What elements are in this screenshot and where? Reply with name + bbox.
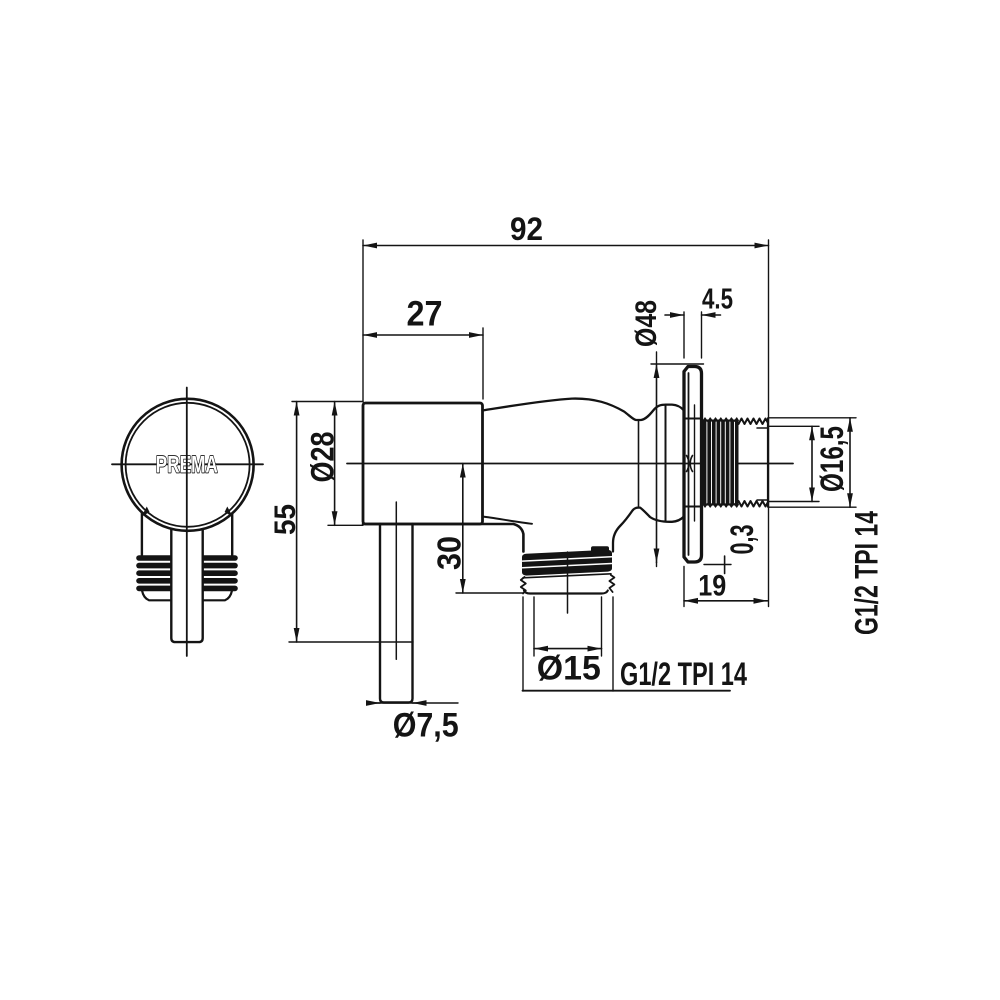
drain stem right view [380, 524, 413, 703]
dim O28 line [334, 402, 336, 526]
dim O16,5 line [811, 426, 813, 501]
dim 19 line [684, 600, 768, 602]
thread band 4 left view [139, 578, 235, 584]
dim 27 line [363, 334, 483, 336]
thread band 5 left view [139, 586, 235, 592]
dim O15 line [534, 648, 602, 650]
neck waist edge line [638, 421, 640, 508]
outlet thread band slit 2 [523, 564, 612, 568]
dim G1/2 bottom extension right [612, 597, 614, 691]
dim 0,3 extension [704, 564, 731, 566]
dim 55 line [296, 402, 298, 643]
dim O7,5 line with outside arrows [368, 702, 458, 704]
outlet thread band slit 1 [523, 557, 612, 561]
main horizontal centerline [347, 463, 793, 465]
spindle stem left view [171, 520, 202, 642]
svg-text:Ø7,5: Ø7,5 [393, 707, 459, 745]
outlet right zigzag edge [609, 575, 614, 592]
svg-text:Ø16,5: Ø16,5 [814, 426, 850, 492]
thread band 2 left view [139, 563, 235, 569]
dim 30 line [462, 464, 464, 594]
outlet thread boundary line [523, 574, 611, 578]
dim O28 extension top [292, 401, 363, 403]
svg-text:G1/2 TPI 14: G1/2 TPI 14 [620, 656, 747, 692]
bottom contour right of outlet [613, 508, 684, 552]
dim 0,3 tick line [724, 556, 726, 574]
dim O48 extension top [651, 363, 704, 365]
svg-text:G1/2 TPI 14: G1/2 TPI 14 [849, 511, 885, 635]
dim O15 extension right [601, 597, 603, 656]
svg-text:27: 27 [407, 295, 443, 334]
svg-text:4.5: 4.5 [702, 284, 733, 316]
dim 92 line [363, 245, 769, 247]
dim 19 extension left [683, 567, 685, 607]
thread crest sawtooth bottom [739, 501, 769, 507]
handle inner circle [126, 403, 250, 527]
svg-text:92: 92 [510, 211, 543, 247]
dim O48 line [656, 352, 658, 364]
pipe end face [767, 419, 769, 507]
shoulder left junction wedge [141, 507, 149, 518]
pipe bore edge bottom [757, 499, 768, 501]
outlet thread start tab [591, 546, 609, 553]
outlet bottom edge [524, 591, 608, 594]
pipe bore edge top [757, 427, 768, 429]
dim 92 extension right / pipe end extension [768, 240, 770, 607]
outlet thread band block [522, 550, 612, 576]
dim 92 extension left [362, 240, 364, 402]
flange center notch [687, 456, 693, 472]
dim 4.5 extension left [683, 312, 685, 358]
dim G1/2 bottom extension left [522, 597, 524, 691]
dim 4.5 extension right [701, 312, 703, 358]
dim G1/2 right extension top [768, 417, 856, 419]
svg-text:19: 19 [698, 570, 726, 603]
horizontal centerline left view [112, 463, 263, 465]
thread band 3 left view [139, 570, 235, 576]
outlet centerline [567, 552, 569, 613]
flange inner edge line 1 [688, 373, 690, 555]
DIMENSIONS [289, 240, 856, 703]
svg-text:Ø15: Ø15 [537, 650, 601, 688]
dim O16,5 extension bottom [768, 501, 819, 503]
shoulder right junction wedge [225, 507, 233, 518]
outlet left zigzag edge [521, 577, 526, 594]
drain stem centerline [395, 502, 397, 659]
svg-text:Ø28: Ø28 [304, 432, 340, 483]
svg-text:55: 55 [269, 504, 302, 535]
thread band 1 left view [139, 555, 235, 561]
dim G1/2 right extension bottom [768, 506, 856, 508]
wall flange [684, 367, 702, 563]
spout bottom edge [363, 524, 523, 552]
thread runout left view [142, 591, 232, 601]
svg-text:0,3: 0,3 [724, 525, 760, 555]
svg-text:Ø48: Ø48 [630, 300, 663, 347]
spout top contour [483, 399, 685, 420]
dim O15 extension left [533, 597, 535, 656]
flange inner edge line 2 [694, 405, 696, 521]
dim G1/2 bottom underline [523, 690, 731, 692]
bell rim edge line [665, 405, 667, 522]
dim 27 extension right [482, 328, 484, 399]
dim O28 extension bottom [328, 524, 363, 526]
dim 4.5 line with outside arrows [665, 314, 684, 316]
dim 30 extension bottom [456, 592, 523, 594]
handle outer circle [122, 399, 254, 531]
spout bottom merge wedge [483, 517, 533, 524]
vertical centerline left view [186, 388, 188, 657]
flange bore line bottom [684, 506, 702, 508]
dim G1/2 right line [849, 418, 851, 507]
thread crest sawtooth top [739, 419, 769, 425]
dense thread block [703, 418, 739, 507]
flange bore line top [684, 418, 702, 420]
dim O16,5 extension top [768, 425, 819, 427]
dim 55 extension bottom [289, 641, 413, 643]
shoulder right edge [231, 510, 233, 556]
svg-text:30: 30 [431, 536, 468, 570]
PREMA logo text [156, 452, 218, 479]
main body cylinder [363, 403, 483, 524]
shoulder left edge [141, 510, 143, 556]
